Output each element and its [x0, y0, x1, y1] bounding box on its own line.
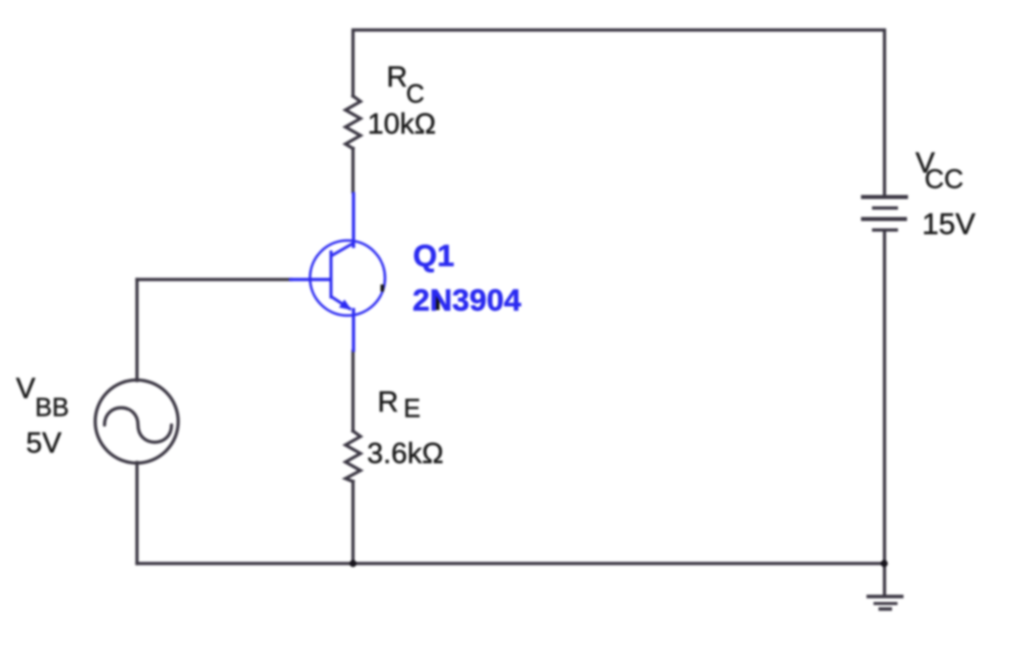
svg-text:BB: BB	[35, 394, 69, 422]
svg-text:10kΩ: 10kΩ	[368, 109, 436, 141]
svg-text:E: E	[404, 395, 421, 423]
svg-text:15V: 15V	[922, 208, 975, 241]
svg-text:CC: CC	[925, 164, 964, 194]
svg-text:2N3904: 2N3904	[413, 283, 522, 318]
svg-text:V: V	[16, 373, 36, 405]
svg-text:R: R	[387, 62, 408, 94]
svg-text:5V: 5V	[26, 428, 62, 460]
svg-text:R: R	[378, 387, 399, 419]
svg-text:C: C	[406, 81, 424, 109]
svg-text:3.6kΩ: 3.6kΩ	[367, 438, 444, 470]
svg-text:Q1: Q1	[413, 238, 454, 273]
